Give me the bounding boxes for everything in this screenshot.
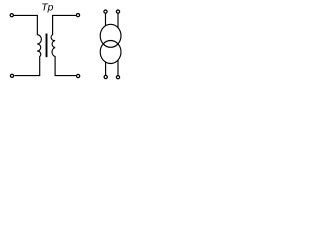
terminal circle-symbol bottom-left (104, 75, 107, 78)
terminal circle-symbol bottom-right (116, 76, 119, 79)
core line 2 (46, 34, 48, 58)
terminal top-right (76, 14, 79, 17)
lead bottom-right of circle symbol (117, 60, 119, 75)
lead top-left of circle symbol (105, 13, 107, 26)
lead top-right of circle symbol (117, 13, 119, 28)
terminal circle-symbol top-left (104, 10, 107, 13)
transformer T secondary winding with top-right wire (51, 15, 76, 75)
terminal bottom-right (77, 74, 80, 77)
lead bottom-left of circle symbol (105, 62, 107, 75)
terminal circle-symbol top-right (116, 10, 119, 13)
two-winding transformer upper circle (100, 24, 121, 47)
terminal top-left (10, 14, 13, 17)
transformer T primary winding with top-left wire (14, 15, 41, 75)
two-winding transformer lower circle (100, 41, 121, 64)
core line 1 (45, 34, 47, 58)
svg-text:Tp: Tp (41, 1, 53, 13)
terminal bottom-left (10, 74, 13, 77)
